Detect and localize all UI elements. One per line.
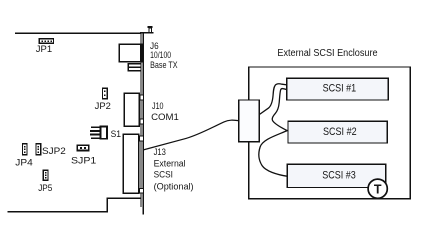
svg-text:J13: J13 (154, 147, 166, 157)
svg-text:JP2: JP2 (95, 101, 111, 111)
svg-text:SCSI #2: SCSI #2 (323, 126, 357, 138)
svg-text:SJP1: SJP1 (71, 156, 96, 166)
svg-text:SCSI #1: SCSI #1 (323, 82, 357, 94)
svg-text:10/100: 10/100 (150, 50, 171, 60)
svg-text:(Optional): (Optional) (154, 181, 194, 191)
svg-text:External SCSI Enclosure: External SCSI Enclosure (277, 48, 378, 59)
svg-text:SJP2: SJP2 (42, 146, 66, 156)
svg-text:COM1: COM1 (151, 112, 179, 122)
svg-text:Base TX: Base TX (150, 60, 177, 70)
svg-text:External: External (154, 159, 186, 169)
svg-text:SCSI #3: SCSI #3 (322, 170, 356, 182)
svg-text:SCSI: SCSI (154, 170, 173, 180)
svg-text:JP5: JP5 (38, 183, 52, 193)
svg-text:JP1: JP1 (36, 44, 52, 54)
svg-text:J10: J10 (152, 101, 164, 111)
svg-text:S1: S1 (111, 129, 121, 140)
svg-text:T: T (374, 182, 382, 196)
svg-text:JP4: JP4 (15, 158, 32, 168)
